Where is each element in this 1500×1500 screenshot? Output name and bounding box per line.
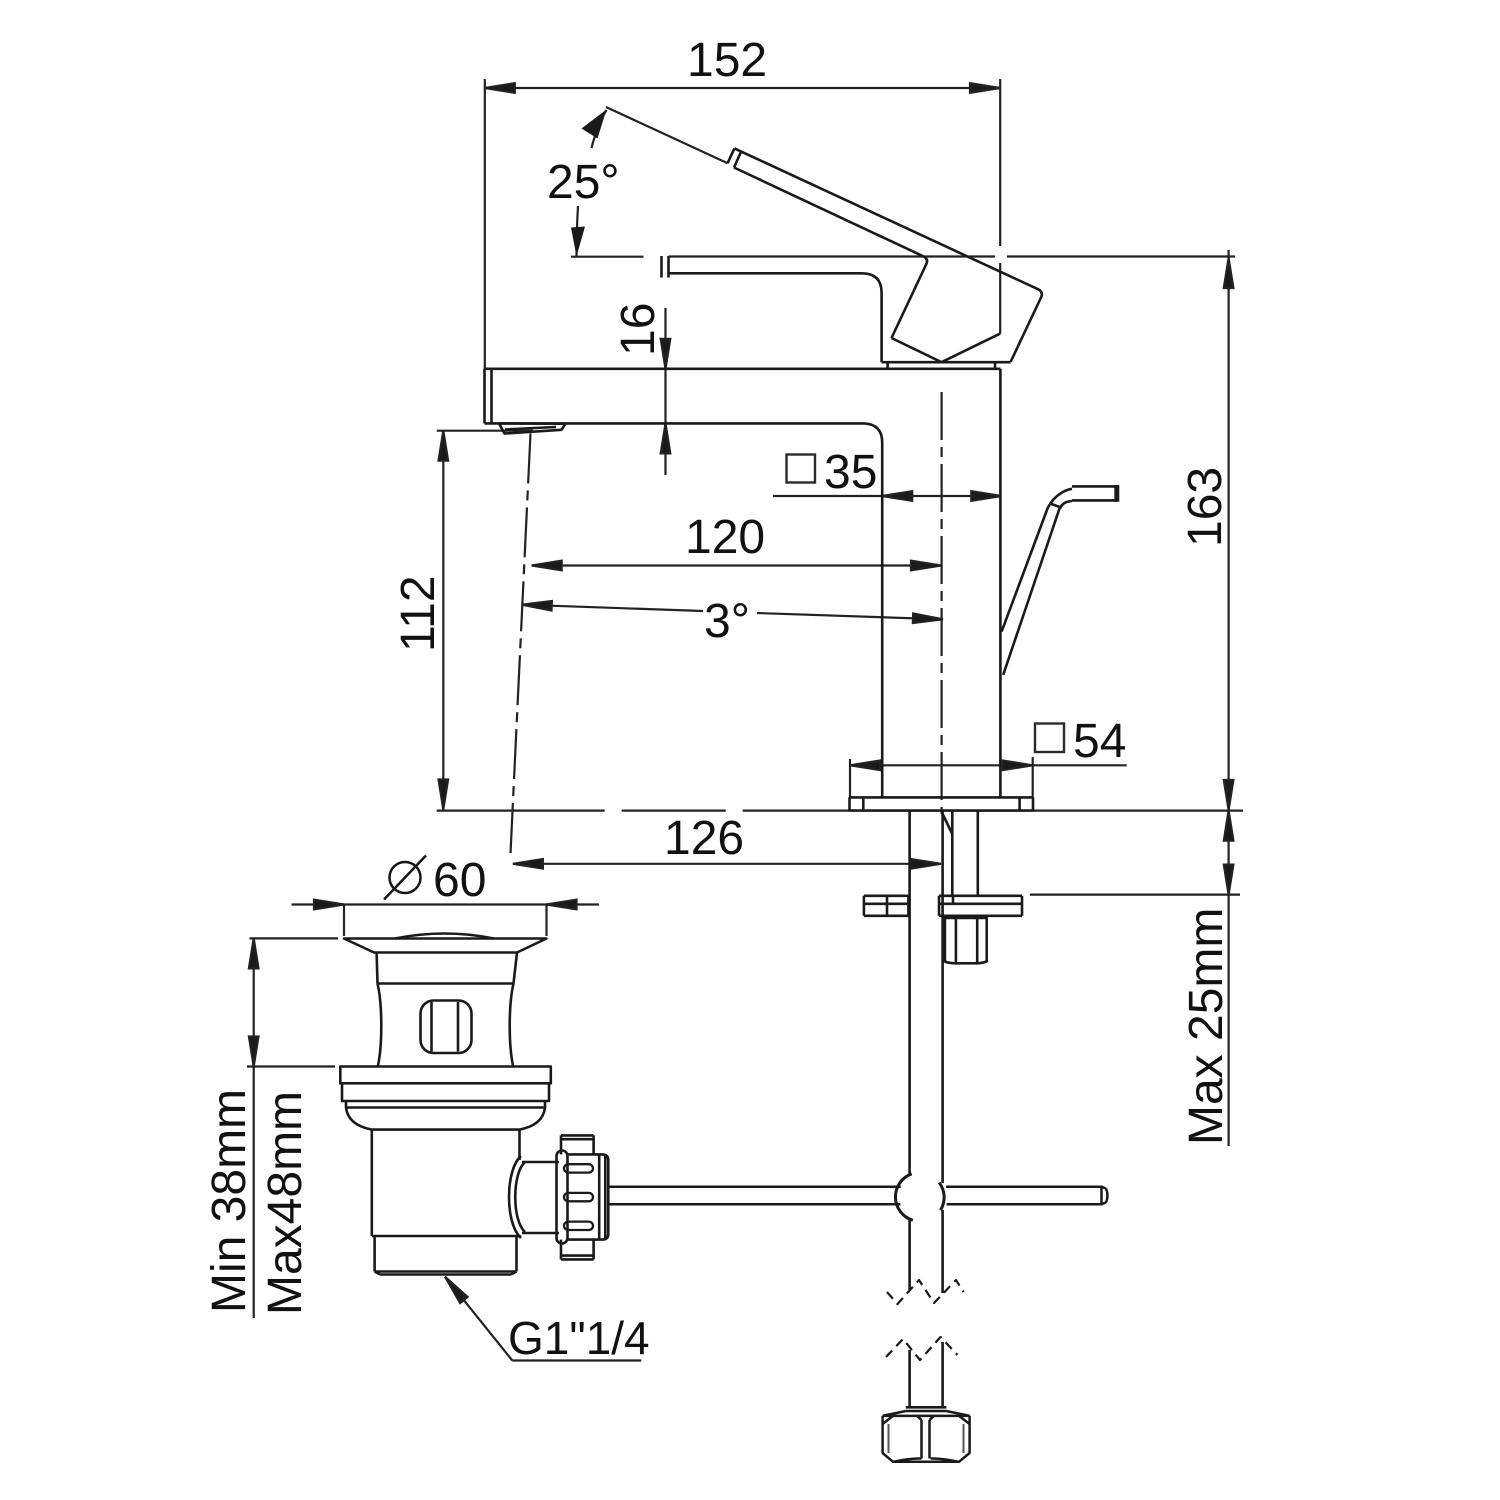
dimension sq35 line [773,495,1001,497]
handle open position grip bar [1072,486,1117,500]
spout underside [669,273,882,362]
castellated nut bottom tab [561,1240,594,1260]
dimension 120 left arrow [532,561,562,571]
extension line top of 112 [437,430,533,432]
drain flange top plate [344,939,547,953]
rod ball joint [895,1174,912,1221]
svg-text:54: 54 [1073,715,1126,768]
extension line dia60 right [545,905,547,937]
handle lever bottom edge [734,168,927,339]
label dia60 symbol [384,856,426,900]
dimension 120 right arrow [911,561,941,571]
extension line Min38 bottom [247,1065,335,1067]
drain body shoulder [346,1108,545,1130]
svg-text:Max48mm: Max48mm [259,1091,312,1315]
dimension 126 left arrow [513,859,543,869]
svg-text:35: 35 [824,446,877,499]
centerline of faucet body [940,392,942,814]
extension line left of sq54 [849,759,851,797]
drain mid neck [378,984,514,1067]
washer right piece [939,896,1022,916]
extension line counter right [1033,809,1243,811]
dimension Max25 bottom arrow [1224,865,1234,895]
svg-text:120: 120 [685,511,765,564]
mounting hex nut [945,918,987,963]
dimension 16 line [664,308,666,475]
dimension sq54 right arrow [1003,761,1033,771]
dimension 112 line [442,431,444,810]
handle lever top edge [734,148,1041,361]
extension line dia60 left [343,905,345,937]
drain neck window [421,1001,472,1054]
dimension Min38 top arrow [249,938,259,968]
3 degree slant centerline [510,434,530,859]
dimension 112 bottom arrow [439,780,449,810]
handle open position arm [1002,489,1072,632]
leader G1 1/4 arrow [441,1274,467,1303]
svg-text:60: 60 [433,854,486,907]
svg-text:126: 126 [664,812,744,865]
deck beam left end cap [485,369,492,424]
label sq54 square [1035,724,1064,753]
pop-up lift rod [910,811,943,1293]
lower rod stub [883,1342,970,1416]
extension line washer top right [1030,893,1240,895]
drain plug dome [395,934,494,939]
dimension sq54 line [850,764,1127,766]
deck beam top [485,367,1001,370]
dimension Max25 line [1227,811,1229,895]
extension line right of 152 / handle right edge [999,79,1001,334]
drain flange stack [340,1067,551,1108]
svg-text:25°: 25° [547,156,620,209]
castellated nut slots [564,1164,593,1172]
dimension 126 line [513,863,941,865]
leader extension below Max25 [1227,895,1229,1146]
drain cup bottom rim [372,1236,520,1275]
dimension 152 line [485,87,1000,89]
dimension 163 bottom arrow [1224,780,1234,810]
svg-text:3°: 3° [704,595,750,648]
break zigzag upper [887,1280,964,1304]
handle base plate [882,362,1011,369]
threaded shank below counter [943,811,978,896]
supply hex nut [883,1416,970,1462]
svg-text:112: 112 [392,575,445,652]
label sq35 square [787,455,816,483]
extension line left of 152 [484,79,486,369]
dimension sq54 left arrow [850,761,880,771]
25 deg dimension ray [606,107,728,163]
svg-text:Max 25mm: Max 25mm [1180,908,1233,1145]
dimension 163 line [1227,250,1229,810]
drain horizontal rod [608,1186,1107,1206]
dimension 163 top arrow [1224,258,1234,288]
drain cup body [372,1130,520,1236]
dimension 120 line [532,564,941,566]
counter chain line left [437,809,850,811]
washer left piece [864,896,909,916]
dimension 152 right arrow [970,83,1000,93]
base plate [850,797,1034,810]
castellated nut cap face [599,1154,605,1239]
castellated nut body [567,1154,608,1239]
spout aerator [499,423,566,433]
drain upper neck [377,953,517,984]
castellated nut top tab [561,1135,594,1154]
handle body pentagon lower edges [892,334,1001,363]
horizontal max-height reference line y=257 [571,255,1235,257]
dimension Max25 top arrow [1224,811,1234,841]
extension line Min38 top [250,937,339,939]
handle lever end cap [728,148,741,167]
svg-text:Min 38mm: Min 38mm [203,1089,256,1313]
dimension 3deg left arrow [522,600,552,611]
dimension 3deg right arrow [913,613,943,624]
dimension dia60 left arrow [314,900,344,910]
dimension dia60 line [292,903,600,905]
svg-text:163: 163 [1179,467,1232,547]
column right edge [999,369,1002,798]
dimension 112 top arrow [439,431,449,461]
dimension 152 left arrow [485,83,515,93]
dimension Min38 bottom arrow [249,1037,259,1067]
leader G1 1/4 [445,1277,641,1361]
svg-text:152: 152 [687,34,767,87]
dimension Min38 line [253,938,255,1318]
dimension 16 lower arrow [661,423,671,453]
dimension 3deg line [522,605,943,620]
svg-text:16: 16 [612,303,665,356]
dimension sq35 left arrow [882,491,912,501]
dimension sq35 right arrow [971,491,1001,501]
dimension 126 right arrow [911,859,941,869]
spout end cap [662,256,669,278]
dimension dia60 right arrow [547,900,577,910]
25 deg arc upper arrow [592,110,607,148]
25 deg arc lower arrow [577,206,579,257]
drain outlet stub [522,1162,559,1233]
extension line right of sq54 [1032,757,1034,797]
dimension 16 upper arrow [661,339,671,369]
svg-text:G1"1/4: G1"1/4 [508,1312,650,1364]
deck beam bottom [485,423,883,797]
break zigzag lower [886,1337,958,1360]
drain side outlet bulge [509,1156,525,1238]
castellated nut collar [557,1151,568,1244]
